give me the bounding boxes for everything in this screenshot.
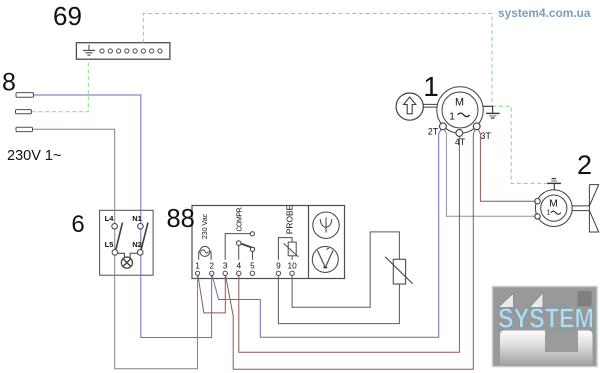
svg-text:9: 9	[276, 260, 281, 270]
controller 88 box	[192, 206, 345, 279]
box6 terminal L4	[112, 223, 118, 229]
svg-text:COMPR.: COMPR.	[237, 206, 244, 232]
terminal circles 1-5 9 10	[196, 271, 295, 275]
lamp connectors	[118, 253, 138, 257]
motor2 lower terminal	[535, 214, 540, 219]
box6 terminal N1	[138, 223, 144, 229]
watermark logo system4	[493, 287, 598, 367]
svg-text:3T: 3T	[481, 131, 492, 141]
supply lug 1	[16, 93, 34, 98]
terminal strip 69 box	[76, 43, 169, 60]
wire brown terminal4 to motor1 4T	[239, 133, 460, 352]
svg-text:1: 1	[195, 260, 200, 270]
motor M2	[535, 190, 572, 227]
shaft pump to motor1	[423, 104, 437, 107]
svg-text:88: 88	[167, 205, 195, 233]
box6 terminal N2	[137, 250, 143, 256]
wire brown terminal3 to motor1 3T	[225, 126, 477, 369]
wire gray-blue 2T to motor2 lower terminal	[443, 126, 538, 216]
svg-text:1: 1	[449, 110, 455, 122]
external probe thermistor	[393, 259, 405, 284]
lamp	[121, 257, 132, 268]
svg-text:2: 2	[209, 260, 214, 270]
svg-text:1: 1	[423, 71, 439, 102]
wire brown 3T to motor2 upper terminal	[477, 126, 538, 201]
wire gray from lug3 through box6 L4 L5 to terminal 1	[33, 129, 198, 368]
svg-text:system4.com.ua: system4.com.ua	[498, 6, 591, 20]
defrost icon circle	[313, 212, 339, 238]
switch box 6 outline	[100, 210, 154, 275]
svg-text:SYSTEM: SYSTEM	[498, 303, 594, 334]
relay contact compressor	[225, 234, 250, 260]
switch blade N	[141, 223, 148, 250]
motor M1	[437, 87, 483, 133]
svg-text:M: M	[549, 198, 558, 210]
svg-text:5: 5	[250, 260, 255, 270]
motor1 terminal 2T	[440, 123, 447, 130]
svg-text:10: 10	[287, 260, 297, 270]
svg-text:L4: L4	[105, 214, 115, 223]
svg-text:230 Vac: 230 Vac	[200, 214, 209, 240]
ground symbol motor1	[486, 112, 499, 114]
probe input thermistor	[278, 238, 292, 260]
wire black terminal9 to probe	[278, 273, 399, 323]
wire L blue from lug1 through box6 N1 N2 to terminal 2	[34, 95, 212, 338]
strip terminal holes	[100, 49, 162, 53]
svg-text:M: M	[455, 96, 464, 108]
svg-text:4T: 4T	[455, 137, 466, 147]
wire brown jumper terminal1 to terminal3	[198, 273, 226, 313]
svg-text:N2: N2	[132, 240, 142, 249]
svg-text:L5: L5	[105, 240, 114, 249]
box6 terminal L5	[112, 250, 118, 256]
svg-text:69: 69	[53, 1, 82, 31]
svg-text:6: 6	[71, 211, 84, 238]
motor1 terminal 3T	[473, 123, 480, 130]
fan shaft	[572, 206, 589, 211]
supply lug 2	[16, 110, 32, 114]
motor2 upper terminal	[535, 199, 540, 204]
svg-text:4: 4	[236, 260, 241, 270]
svg-text:3: 3	[223, 260, 228, 270]
svg-text:2: 2	[577, 150, 592, 180]
svg-text:2T: 2T	[428, 127, 439, 137]
compressor icon circle	[312, 246, 338, 272]
ground symbol motor2 inverted	[553, 184, 555, 191]
motor1 ground wire	[483, 106, 492, 113]
svg-text:N1: N1	[132, 214, 142, 223]
svg-text:8: 8	[2, 69, 16, 97]
wire green earth motor1 ground to motor2 ground	[492, 106, 547, 183]
svg-text:PROBE: PROBE	[285, 204, 295, 234]
ground symbol in strip	[83, 45, 95, 56]
wire green earth strip to motor1 ground	[143, 14, 492, 107]
controller 88 divider	[308, 206, 310, 279]
switch blade L	[116, 223, 123, 250]
fan blades	[589, 185, 598, 232]
svg-text:1: 1	[547, 210, 551, 217]
svg-text:230V 1~: 230V 1~	[7, 148, 61, 164]
pump circle with arrow	[396, 93, 423, 120]
terminal numbers	[195, 260, 297, 270]
supply lug 3	[16, 127, 33, 131]
wire green earth lug2 to strip	[32, 59, 89, 111]
supply sine symbol	[199, 246, 211, 259]
wire blue terminal 2 to motor1 2T	[212, 126, 443, 337]
motor1 terminal 4T	[456, 130, 463, 137]
wire black terminal10 to probe	[292, 232, 399, 307]
